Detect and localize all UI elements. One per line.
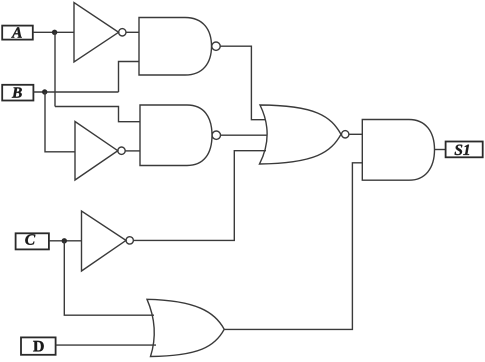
wire U8 output to S1 bbox=[435, 149, 446, 151]
wire B riser to nand U3 bottom input bbox=[119, 62, 140, 93]
input box B bbox=[2, 85, 33, 101]
input box A bbox=[2, 26, 33, 40]
nor gate U6 bbox=[260, 105, 349, 164]
wire C junction down to or U7 top input bbox=[64, 241, 154, 315]
input box D bbox=[21, 337, 56, 354]
nand gate U4 bbox=[140, 105, 221, 166]
wire U2 output to nand U4 bottom input bbox=[125, 150, 140, 152]
or gate U7 bbox=[147, 299, 224, 356]
wire U1 output to nand U3 bbox=[126, 31, 139, 33]
input box C bbox=[16, 233, 49, 249]
wire B to riser bbox=[33, 91, 118, 93]
wire U3 output to nor U6 top input bbox=[220, 46, 265, 120]
wire A step to nand U4 top input bbox=[55, 107, 140, 122]
node A junction bbox=[52, 30, 57, 35]
inverter U1 bbox=[74, 3, 126, 63]
wire B junction down to inverter U2 bbox=[45, 92, 75, 152]
wire D to or U7 bottom input bbox=[56, 344, 156, 346]
node C junction bbox=[62, 238, 67, 243]
and gate U8 bbox=[362, 120, 434, 181]
wire A to inverter U1 bbox=[33, 31, 74, 33]
wire U6 output to and U8 top input bbox=[349, 133, 362, 135]
node B junction bbox=[42, 89, 47, 94]
inverter U5 bbox=[82, 211, 134, 271]
output box S1 bbox=[446, 142, 483, 158]
wire U5 output to nor U6 bottom input bbox=[133, 151, 266, 241]
wire A junction down bbox=[54, 32, 56, 106]
wire U7 output to and U8 bottom input bbox=[224, 163, 362, 330]
nand gate U3 bbox=[139, 18, 220, 76]
wire U4 output to nor U6 middle input bbox=[221, 134, 268, 136]
inverter U2 bbox=[75, 122, 125, 181]
wire C to inverter U5 bbox=[49, 240, 82, 242]
